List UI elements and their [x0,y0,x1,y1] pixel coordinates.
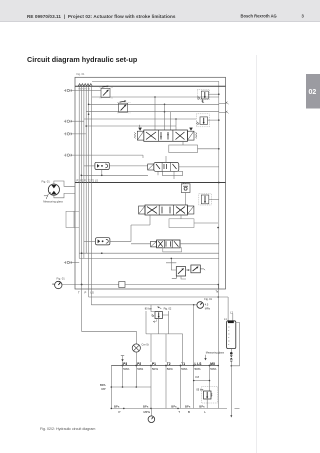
manifold inner wires [151,305,169,334]
svg-text:P: P [119,410,121,414]
wire FM1 right [109,165,147,167]
drop P port [88,289,90,297]
coupling 3 [64,132,72,135]
port column P3 [122,362,124,387]
tank bypass line [231,323,239,366]
svg-text:02: 02 [309,89,317,96]
wire cv1 down [185,193,187,206]
gauge2 [197,302,204,309]
svg-text:Bosch Rexroth AG: Bosch Rexroth AG [241,14,277,19]
feedback box under D1 [169,145,198,153]
left return vertical [110,366,112,409]
header band [0,0,320,22]
flow control valve V1 [100,86,113,99]
bottom bus labels below [119,410,207,414]
svg-text:Fig. 01: Fig. 01 [77,72,85,76]
svg-text:Cm-St: Cm-St [142,343,149,346]
wire cv1 up [185,183,187,184]
wire FM2 to D4 [110,240,131,242]
svg-text:BPs: BPs [185,405,191,409]
wire cylinder top [74,210,79,212]
svg-text:Circuit diagram hydraulic set-: Circuit diagram hydraulic set-up [27,55,138,64]
svg-text:L LS: L LS [195,362,202,366]
LS to MX link [194,380,210,382]
wire coupling1 to bus [70,90,92,92]
RP line [111,386,151,388]
rail y126 [86,125,176,127]
left cylinder rect [66,211,74,227]
wire cylinder bottom [74,227,79,229]
coupling 5 lower left [64,261,72,264]
tank L2 corner [232,314,234,322]
left bus column 5 [88,86,90,289]
flow meter FM1 [95,162,109,169]
svg-text:50%: 50% [181,367,187,371]
percentage labels [123,367,216,371]
drop from FM1 [101,170,103,176]
drop LS port [90,289,92,305]
svg-text:LS: LS [91,291,94,295]
measuring cylinder tank [227,321,236,349]
svg-text:P: P [85,291,87,295]
T drop long [82,285,137,344]
wire coupling5 to frame [70,262,80,264]
rail y97 [92,96,219,98]
svg-text:Measuring glass: Measuring glass [43,200,63,204]
riser to valve D1 port B [170,112,172,130]
svg-text:T2: T2 [167,362,171,366]
port column MX [209,366,211,392]
svg-text:50%: 50% [167,367,173,371]
svg-text:P3 P2 P1 T2 T1 LS: P3 P2 P1 T2 T1 LS [77,179,99,182]
wire coupling4 to valve pilot rail [70,154,144,156]
rail y111.7 [86,111,219,113]
wires shutoff cluster [166,258,191,279]
coupling 1 [64,89,72,92]
svg-text:Fig. 02/2: Hydraulic circuit d: Fig. 02/2: Hydraulic circuit diagram [40,427,95,431]
test point M2 [219,111,229,114]
pressure relief valve PRV1 [197,90,209,103]
D1 pilot marks [139,125,142,131]
svg-text:Fig. 01: Fig. 01 [204,298,212,301]
directional valve D1 [134,130,197,141]
MX relief valve [196,387,217,404]
svg-text:P2: P2 [137,362,141,366]
motor top pipe [54,181,75,186]
wire D2 right [179,166,219,168]
measuring glass right arrow [204,355,206,361]
wire v1 left [91,90,101,92]
svg-text:Fig. 01: Fig. 01 [57,276,66,280]
svg-text:BPs: BPs [199,405,205,409]
svg-text:B: B [188,410,190,414]
coupling 4 [64,154,72,157]
svg-text:50%: 50% [137,367,143,371]
svg-text:T: T [178,410,180,414]
left bus column 2 [81,86,83,284]
base plate thick line [75,182,226,184]
svg-text:BPs: BPs [143,405,149,409]
bottom pressure gauge [52,281,62,288]
wire bus to FM2 [84,240,96,242]
feedback box under D3 [169,219,194,228]
rail y253.2 [79,252,219,254]
wire rail to D2 pilot [142,155,144,158]
left bus column 1 [78,86,80,258]
svg-text:Fig. 01: Fig. 01 [42,180,51,184]
chapter tab 02 [306,74,320,109]
svg-text:MPa: MPa [205,308,211,311]
manifold relief valve [152,312,163,323]
svg-text:MPG: MPG [144,410,151,414]
riser to valve D1 port P [154,97,156,130]
drain arrow P3 [121,356,124,362]
feedback box under D4 [163,248,182,252]
manifold relief arrow [158,307,162,309]
flow control valve V2 [117,100,130,113]
measuring glass motor [48,184,59,195]
port column T1 [180,366,182,409]
pump gauge [148,408,155,422]
flow meter FM2 [96,238,110,245]
long line LS y304.8 [91,304,197,306]
svg-text:50%: 50% [210,367,216,371]
port labels [123,362,216,366]
wire gauge to bus [62,284,119,286]
shutoff valve SV1 [172,267,186,279]
wire coupling3 to bus [70,133,87,135]
directional valve D2 [148,163,183,176]
riser D2 ports [158,156,174,179]
wire cmst down [135,352,137,365]
measuring point circle Cm-St [132,344,140,352]
long line P y297 [89,296,229,298]
riser to valve D1 port T [175,119,177,130]
bottom bus labels above [114,405,205,409]
port column T2 [165,366,167,409]
pressure relief valve PRV2 [196,114,209,127]
bottom bus [111,407,227,409]
page fold line [256,55,258,453]
svg-text:50%: 50% [152,367,158,371]
left bus column 3 [83,86,85,258]
wire box to right frame [194,222,218,224]
inner frame line top [92,81,219,289]
tank feed line [227,297,229,321]
throttle box on bottom line [119,282,125,288]
rail y258.4 [79,257,219,259]
wire feedback box right [198,148,219,150]
port column P2 [135,366,137,388]
svg-text:RP: RP [102,387,106,391]
svg-text:4.5: 4.5 [205,304,209,307]
motor bottom pipe [54,193,75,197]
rail y175.3 [81,174,148,176]
wire prv2 to right [208,119,219,121]
port bus line [111,365,218,367]
rail y104.3 [89,103,219,105]
svg-text:BPs: BPs [114,405,120,409]
pilot valve PV1 [199,194,212,205]
port column P1 [150,366,152,409]
svg-text:0.8: 0.8 [195,375,199,379]
drain line down [230,362,232,416]
vertical right main [217,285,219,409]
svg-text:05 bar: 05 bar [196,388,203,391]
drain coupling under tank [230,349,233,361]
wire bus to FM1 [84,165,95,167]
rail y119 [84,118,196,120]
shutoff valve SV2 [191,265,205,273]
funnel symbol [44,192,51,199]
test point M1 [219,102,229,105]
left bus column 4 [85,86,87,253]
wire prv1 to right [208,93,219,95]
wire D1 to feedback box [182,141,184,145]
svg-text:50%: 50% [123,367,129,371]
svg-text:P1: P1 [152,362,156,366]
directional valve D4 [151,240,180,248]
manifold outline [146,311,183,362]
riser to valve D1 port A [164,104,166,130]
junction dots rail right [164,104,166,106]
svg-text:Measuring glass: Measuring glass [206,352,225,355]
svg-text:50%: 50% [195,367,201,371]
directional valve D3 [139,205,194,215]
wire to D4 left [131,243,151,245]
check valve CV1 [181,182,190,192]
MX valve to bus [206,399,208,408]
supply bus thick line [75,85,226,87]
junction dots left bus [88,104,90,106]
wire D3 to box [180,215,182,219]
svg-text:T1: T1 [181,362,185,366]
svg-text:BPs: BPs [171,405,177,409]
wire pv1 right [209,198,219,200]
riser D3 left ports [131,215,150,242]
main block frame [75,77,226,289]
zigzag accumulator row on supply bus [78,84,92,86]
left bus column 6 [90,86,92,289]
wire D4 right [180,243,219,245]
svg-text:P3: P3 [123,362,127,366]
wire throttle right [125,284,218,286]
port column LS [193,366,195,409]
svg-text:RE 09970/03.11 | Project 02:: RE 09970/03.11 | Project 02: Actuator fl… [27,14,176,19]
wire coupling2 to bus [70,120,84,122]
coupling 2 [64,120,72,123]
LS drop to ports [193,305,195,366]
svg-text:Fig. 02: Fig. 02 [164,308,172,311]
